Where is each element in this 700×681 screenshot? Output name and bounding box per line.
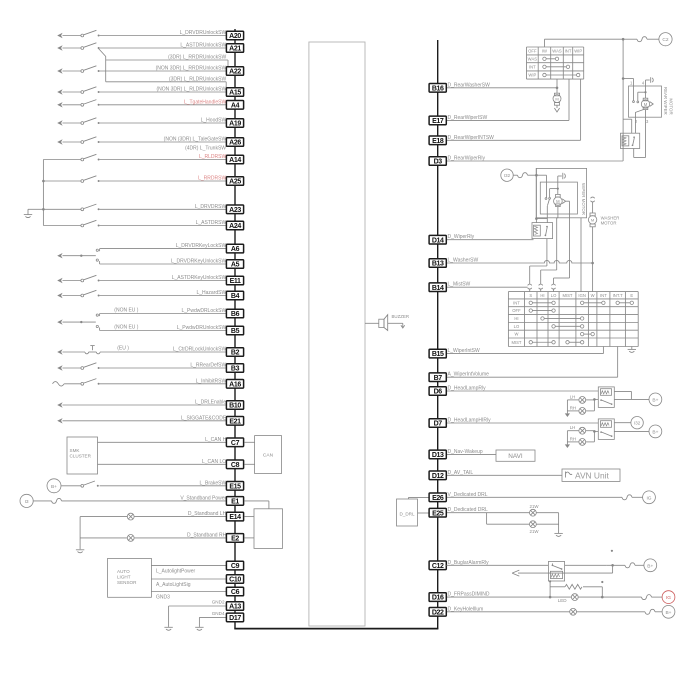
svg-text:V_Standband Power: V_Standband Power	[180, 496, 226, 502]
svg-text:GND3: GND3	[156, 595, 170, 601]
svg-text:E26: E26	[432, 495, 444, 502]
fuse source I3	[20, 494, 33, 507]
svg-text:MIST: MIST	[511, 340, 521, 345]
central door lock push switch (EU)	[63, 351, 86, 353]
connector D17	[226, 613, 243, 622]
svg-text:SMK: SMK	[70, 448, 81, 453]
ignition source IG red	[662, 591, 675, 604]
svg-text:L_ASTDRSW: L_ASTDRSW	[196, 220, 227, 226]
svg-text:A5: A5	[231, 262, 240, 269]
fuse	[642, 595, 652, 600]
svg-text:RH: RH	[570, 436, 576, 441]
BCM inner body rectangle	[309, 42, 365, 626]
svg-text:A24: A24	[229, 223, 241, 230]
svg-text:B15: B15	[432, 351, 444, 358]
connector D3	[429, 157, 446, 166]
svg-text:A21: A21	[229, 46, 241, 53]
wire to A25	[100, 180, 227, 182]
rear wiper motor box	[629, 86, 662, 117]
svg-text:WIP: WIP	[574, 49, 582, 54]
wire E26 dedicated DRL power	[446, 496, 622, 498]
front wiper ignition feed	[580, 218, 582, 292]
connector A5	[226, 260, 243, 269]
svg-text:LH: LH	[570, 394, 576, 399]
keyhole lamp	[570, 608, 577, 615]
svg-text:L_RRearDefSW: L_RRearDefSW	[190, 363, 226, 369]
wire to A5	[100, 263, 227, 265]
svg-text:A13: A13	[229, 604, 241, 611]
connector D16	[429, 593, 446, 602]
svg-text:L_PwdwDRLockSW: L_PwdwDRLockSW	[181, 308, 226, 314]
connector A20	[226, 31, 243, 40]
svg-text:B13: B13	[432, 261, 444, 268]
front wiper motor high terminal	[566, 200, 570, 202]
connector B15	[429, 349, 446, 358]
svg-text:D_RearWiperINTSW: D_RearWiperINTSW	[448, 135, 495, 141]
svg-text:D_RearWiperISW: D_RearWiperISW	[448, 115, 488, 121]
svg-text:I32: I32	[634, 421, 641, 426]
junction dot	[42, 208, 45, 211]
headlamp relay D7	[598, 419, 614, 440]
connector E14	[226, 512, 243, 521]
svg-text:D7: D7	[434, 421, 443, 428]
wire to A6	[100, 248, 227, 250]
svg-text:D22: D22	[432, 609, 444, 616]
page arrow A22	[57, 68, 62, 73]
svg-text:L_RLDRSW: L_RLDRSW	[199, 154, 227, 160]
svg-text:IGN: IGN	[578, 293, 585, 298]
stray junction dot	[611, 550, 613, 552]
svg-text:BUZZER: BUZZER	[392, 314, 410, 319]
connector D12	[429, 471, 446, 480]
svg-text:D16: D16	[432, 595, 444, 602]
DRL ground	[558, 513, 560, 533]
svg-text:B2: B2	[231, 350, 240, 357]
svg-text:S: S	[529, 293, 532, 298]
park switch line to relay	[546, 218, 548, 223]
svg-text:D_Standband RH: D_Standband RH	[187, 533, 227, 539]
svg-text:C2: C2	[662, 37, 668, 43]
svg-text:GND4: GND4	[212, 611, 225, 616]
motor low to switch HI col	[556, 219, 558, 270]
svg-text:D6: D6	[434, 389, 443, 396]
connector A16	[226, 380, 243, 389]
page arrow A15	[57, 89, 62, 94]
connector D22	[429, 608, 446, 617]
wire C7 to CAN block	[244, 441, 254, 443]
svg-text:A16: A16	[229, 381, 241, 388]
connector B7	[429, 373, 446, 382]
fuse on standby power	[33, 500, 51, 502]
connector A23	[226, 205, 243, 214]
svg-text:(3DR) L_RRDRUnlockSW: (3DR) L_RRDRUnlockSW	[168, 55, 226, 61]
wire from B16	[446, 87, 557, 89]
connector E17	[429, 116, 446, 125]
svg-text:OFF: OFF	[512, 308, 521, 313]
switch for B3	[63, 367, 82, 369]
inline connector hooks	[528, 284, 532, 285]
brake switch	[61, 485, 81, 487]
svg-text:21W: 21W	[530, 504, 540, 509]
wire to B4	[100, 295, 227, 297]
wire C12 burglar alarm relay	[446, 564, 548, 566]
svg-text:(EU ): (EU )	[117, 345, 129, 351]
svg-text:IG: IG	[666, 595, 671, 601]
svg-text:E25: E25	[432, 510, 444, 517]
switch for A15	[63, 91, 82, 93]
svg-text:A6: A6	[231, 246, 240, 253]
rear wiper motor pin 1 wire	[623, 78, 633, 80]
svg-text:IW: IW	[542, 49, 547, 54]
BCM right connector bus	[437, 40, 439, 629]
svg-text:(NON 3DR) L_RLDRUnlockSW: (NON 3DR) L_RLDRUnlockSW	[156, 87, 226, 93]
wire to B3	[100, 367, 227, 369]
connector A4	[226, 101, 243, 110]
connector C8	[226, 460, 243, 469]
switch for A22	[63, 70, 82, 72]
svg-text:E17: E17	[432, 118, 444, 125]
svg-text:I3: I3	[25, 499, 29, 505]
standby lamps ground	[79, 517, 81, 550]
ground	[24, 214, 32, 216]
rear washer pump motor	[554, 93, 559, 96]
junction dot B16 washer	[556, 87, 559, 90]
svg-text:D3: D3	[434, 159, 443, 166]
connector A22	[226, 67, 243, 76]
junction dot	[42, 180, 45, 183]
junction dot	[622, 38, 625, 41]
svg-text:L_DRVDRSW: L_DRVDRSW	[195, 204, 227, 210]
svg-text:A15: A15	[229, 90, 241, 97]
wire to B6	[100, 313, 227, 315]
ignition source IG	[643, 491, 656, 504]
headlamp relay D6	[598, 387, 614, 408]
svg-text:L_CAN H: L_CAN H	[205, 437, 227, 443]
svg-text:LED: LED	[558, 598, 568, 603]
svg-text:WIPER MOTOR: WIPER MOTOR	[581, 183, 586, 215]
connector E15	[226, 482, 243, 491]
relay output to switch S	[546, 239, 548, 266]
rear wiper relay coil feed	[623, 118, 632, 120]
junction dot	[549, 596, 552, 599]
svg-text:D_Standband LH: D_Standband LH	[188, 511, 227, 517]
svg-text:CAN: CAN	[263, 453, 274, 459]
svg-text:L_PwdwDRUnlockSW: L_PwdwDRUnlockSW	[177, 325, 227, 331]
svg-text:D_AV_TAIL: D_AV_TAIL	[448, 470, 474, 476]
junction dot	[535, 174, 538, 177]
wire E17 to rear switch INT	[446, 119, 569, 121]
svg-text:M: M	[556, 199, 560, 204]
connector A24	[226, 221, 243, 230]
page arrow B10	[57, 402, 62, 407]
connector D6	[429, 387, 446, 396]
svg-text:L_ASTDRKeyUnlockSW: L_ASTDRKeyUnlockSW	[172, 275, 227, 281]
svg-text:(4DR) L_TrunkSW: (4DR) L_TrunkSW	[185, 146, 226, 152]
wire to A26	[100, 141, 227, 143]
svg-text:B14: B14	[432, 285, 444, 292]
D_DRL module box	[397, 499, 418, 526]
continuation squiggle A16	[53, 382, 65, 387]
motor high to switch LO col	[569, 218, 571, 278]
svg-text:B4: B4	[231, 293, 240, 300]
connector E26	[429, 493, 446, 502]
svg-text:HI: HI	[514, 316, 518, 321]
front wiper motor inner box	[540, 182, 577, 214]
connector D13	[429, 450, 446, 459]
wire autolight signal to C10	[151, 578, 226, 580]
wire from D3	[446, 160, 623, 162]
ground wire A13	[169, 605, 227, 607]
svg-text:LO: LO	[514, 324, 520, 329]
wire to A20	[100, 35, 227, 37]
ground wire D17	[199, 616, 226, 618]
svg-text:D_WiperRly: D_WiperRly	[448, 234, 475, 240]
battery source B+	[649, 425, 662, 438]
junction dot	[601, 596, 604, 599]
page arrow A20	[57, 33, 62, 38]
table E column ground	[631, 347, 633, 350]
wire D13 to NAVI	[446, 453, 496, 455]
connector A6	[226, 244, 243, 253]
battery source B+	[644, 559, 657, 572]
wire to B2	[100, 351, 227, 353]
module box right of E1	[254, 509, 283, 549]
connector A21	[226, 44, 243, 53]
connector C12	[429, 561, 446, 570]
svg-text:D_KeyHoleIllum: D_KeyHoleIllum	[448, 606, 484, 612]
svg-text:M: M	[591, 218, 594, 223]
page arrow A4	[57, 102, 62, 107]
3DR branch from A21 switch	[99, 49, 106, 82]
lamp common to relay	[593, 431, 595, 442]
svg-text:B+: B+	[652, 397, 658, 403]
wire to A21	[100, 47, 227, 49]
svg-text:C9: C9	[231, 563, 240, 570]
switch for A20	[63, 35, 82, 37]
connector B2	[226, 348, 243, 357]
DRL lamp 2	[530, 521, 537, 528]
svg-text:A20: A20	[229, 33, 241, 40]
standby lamp LH	[80, 516, 127, 518]
ground wire	[28, 208, 43, 210]
svg-text:A_AutoLightSig: A_AutoLightSig	[156, 582, 191, 588]
connector E18	[429, 136, 446, 145]
fuse	[645, 609, 655, 614]
front wiper feed vertical	[535, 168, 537, 222]
svg-text:HI: HI	[540, 293, 544, 298]
svg-text:D17: D17	[229, 615, 241, 622]
switch for A16	[64, 383, 81, 385]
connector C9	[226, 561, 243, 570]
switch for A14	[43, 159, 81, 161]
svg-text:RH: RH	[570, 405, 576, 410]
selector switch A6/A5	[63, 255, 96, 257]
connector B10	[226, 401, 243, 410]
wire E18 to rear switch WIP	[446, 139, 580, 141]
svg-text:A25: A25	[229, 179, 241, 186]
front wiper motor low terminal	[557, 207, 559, 218]
relay coil to resistor node	[549, 580, 551, 582]
connector B14	[429, 283, 446, 292]
svg-text:(3DR) L_RLDRUnlockSW: (3DR) L_RLDRUnlockSW	[169, 76, 227, 82]
svg-text:W: W	[591, 293, 595, 298]
switch for A4	[63, 104, 82, 106]
svg-text:INT: INT	[513, 300, 520, 305]
wire to E15	[100, 485, 227, 487]
fuse source I32 front wiper	[501, 169, 513, 181]
door switch ground bus	[42, 160, 44, 226]
svg-text:B7: B7	[434, 375, 443, 382]
fuse	[625, 563, 635, 568]
svg-text:D_RearWiperRly: D_RearWiperRly	[448, 156, 486, 162]
wire CAN LO to C8	[98, 463, 227, 465]
svg-text:MOTOR: MOTOR	[669, 98, 674, 114]
wire D12 to AVN	[446, 474, 562, 476]
svg-text:OFF: OFF	[528, 49, 537, 54]
wire B13 washer switch with hops	[446, 260, 592, 263]
svg-text:L_AutolightPower: L_AutolightPower	[156, 569, 196, 575]
svg-text:D_Nav-Wakeup: D_Nav-Wakeup	[448, 449, 483, 455]
svg-text:D_FRPassDIMIND: D_FRPassDIMIND	[448, 592, 490, 598]
svg-text:A19: A19	[229, 121, 241, 128]
switch for A19	[63, 122, 82, 124]
rear washer pump feed	[556, 79, 558, 93]
connector A15	[226, 88, 243, 97]
front wiper motor outer box	[536, 168, 586, 217]
rear wiper motor symbol	[644, 91, 646, 93]
NAVI unit box	[496, 450, 535, 461]
svg-text:L_DRLEnable: L_DRLEnable	[195, 400, 226, 406]
svg-text:(NON 3DR) L_RRDRUnlockSW: (NON 3DR) L_RRDRUnlockSW	[156, 66, 227, 72]
svg-text:B5: B5	[231, 328, 240, 335]
svg-text:L_WasherSW: L_WasherSW	[448, 258, 479, 264]
wire B15 to INT column	[446, 353, 603, 355]
svg-text:B+: B+	[51, 484, 57, 490]
page arrow B3	[57, 365, 62, 370]
svg-text:I32: I32	[504, 173, 511, 178]
connector E1	[226, 497, 243, 506]
svg-text:E11: E11	[230, 278, 241, 285]
svg-text:INT: INT	[565, 49, 572, 54]
wire CAN H to C7	[98, 441, 227, 443]
svg-text:D_DRL: D_DRL	[399, 511, 415, 516]
fuse	[513, 174, 517, 176]
svg-text:A_WiperIntVolume: A_WiperIntVolume	[448, 372, 490, 378]
lamp ground arrow	[566, 400, 568, 414]
buzzer	[365, 322, 379, 324]
wire to B10	[63, 404, 227, 406]
junction dot	[535, 217, 538, 220]
svg-text:C10: C10	[229, 577, 241, 584]
svg-text:B10: B10	[229, 403, 241, 410]
svg-text:L_DRVDRKeyUnlockSW: L_DRVDRKeyUnlockSW	[171, 259, 226, 265]
svg-text:NAVI: NAVI	[508, 453, 523, 460]
svg-text:B+: B+	[647, 563, 653, 569]
svg-text:L_MistSW: L_MistSW	[448, 282, 471, 288]
svg-text:LO: LO	[551, 293, 557, 298]
svg-text:M: M	[555, 96, 558, 101]
connector B3	[226, 364, 243, 373]
front wiper switch feed	[536, 174, 546, 176]
svg-text:C6: C6	[231, 589, 240, 596]
wire E2 to module box	[244, 537, 254, 539]
svg-text:(NON EU ): (NON EU )	[114, 325, 139, 331]
svg-text:V_Dedicated DRL: V_Dedicated DRL	[448, 492, 488, 498]
DRL branch	[486, 513, 488, 525]
wire E25 dedicated DRL output	[446, 512, 529, 514]
svg-text:L_ASTDRUnlockSW: L_ASTDRUnlockSW	[180, 43, 226, 49]
wire to A23	[100, 208, 227, 210]
svg-text:L_BrakeSW: L_BrakeSW	[200, 480, 227, 486]
svg-text:INT: INT	[529, 65, 536, 70]
svg-text:(NON (3DR) L_TaleGateSW: (NON (3DR) L_TaleGateSW	[164, 137, 227, 143]
wire E26 to D_DRL box	[409, 496, 430, 498]
rear wiper motor pin 3 wire	[645, 110, 647, 118]
switch for A25	[43, 180, 81, 182]
svg-text:B3: B3	[231, 366, 240, 373]
rear washer pump ground arrow	[554, 108, 559, 112]
front wiper park switch	[550, 188, 558, 190]
svg-text:D_HeadLampRly: D_HeadLampRly	[448, 386, 487, 392]
svg-text:L_TgateHandleSW: L_TgateHandleSW	[184, 99, 227, 105]
fuse source C2	[659, 33, 672, 46]
svg-text:B16: B16	[432, 85, 444, 92]
connector C10	[226, 575, 243, 584]
svg-text:AVN Unit: AVN Unit	[575, 471, 609, 481]
table contacts	[529, 301, 532, 304]
svg-text:INT.T: INT.T	[613, 293, 623, 298]
svg-text:LIGHT: LIGHT	[117, 575, 131, 580]
rear switch power feed wire	[543, 39, 545, 47]
wire (3DR) L_RRDRUnlockSW	[106, 59, 228, 61]
connector E11	[226, 276, 243, 285]
svg-text:MOTOR: MOTOR	[601, 221, 617, 226]
relay contact to B+	[614, 430, 649, 432]
svg-text:W: W	[514, 332, 518, 337]
junction dot	[557, 188, 559, 190]
page arrow E11	[57, 278, 62, 283]
svg-text:REAR WIPER: REAR WIPER	[663, 87, 668, 115]
wire to A15	[100, 91, 227, 93]
svg-text:C7: C7	[231, 440, 240, 447]
svg-text:L_InhibitRSW: L_InhibitRSW	[196, 378, 227, 384]
BCM left connector bus	[234, 29, 236, 629]
svg-text:L_DRVDRKeyLockSW: L_DRVDRKeyLockSW	[176, 243, 227, 249]
wire (3DR) L_RLDRUnlockSW	[106, 81, 227, 83]
SMK CLUSTER box	[67, 437, 98, 474]
connector E21	[226, 417, 243, 426]
svg-text:B6: B6	[231, 311, 240, 318]
connector A26	[226, 138, 243, 147]
connector B4	[226, 291, 243, 300]
wire to E11	[100, 280, 227, 282]
switch for B4	[63, 295, 82, 297]
fuse	[622, 495, 632, 500]
svg-text:(NON EU ): (NON EU )	[114, 308, 139, 314]
AUTO LIGHT SENSOR box	[108, 558, 152, 597]
rear wiper pin3 loop	[645, 117, 647, 157]
front wiper motor ground	[557, 176, 559, 189]
page arrow B4	[57, 293, 62, 298]
rear wiper motor pin 4 ground	[645, 80, 647, 92]
front washer pump motor	[592, 202, 594, 213]
junction dot washer	[591, 262, 594, 265]
wire to A24	[100, 225, 227, 227]
front wiper switch table	[507, 292, 509, 347]
connector D7	[429, 419, 446, 428]
wire sensor ground to C6	[151, 591, 226, 593]
svg-text:E14: E14	[229, 514, 241, 521]
